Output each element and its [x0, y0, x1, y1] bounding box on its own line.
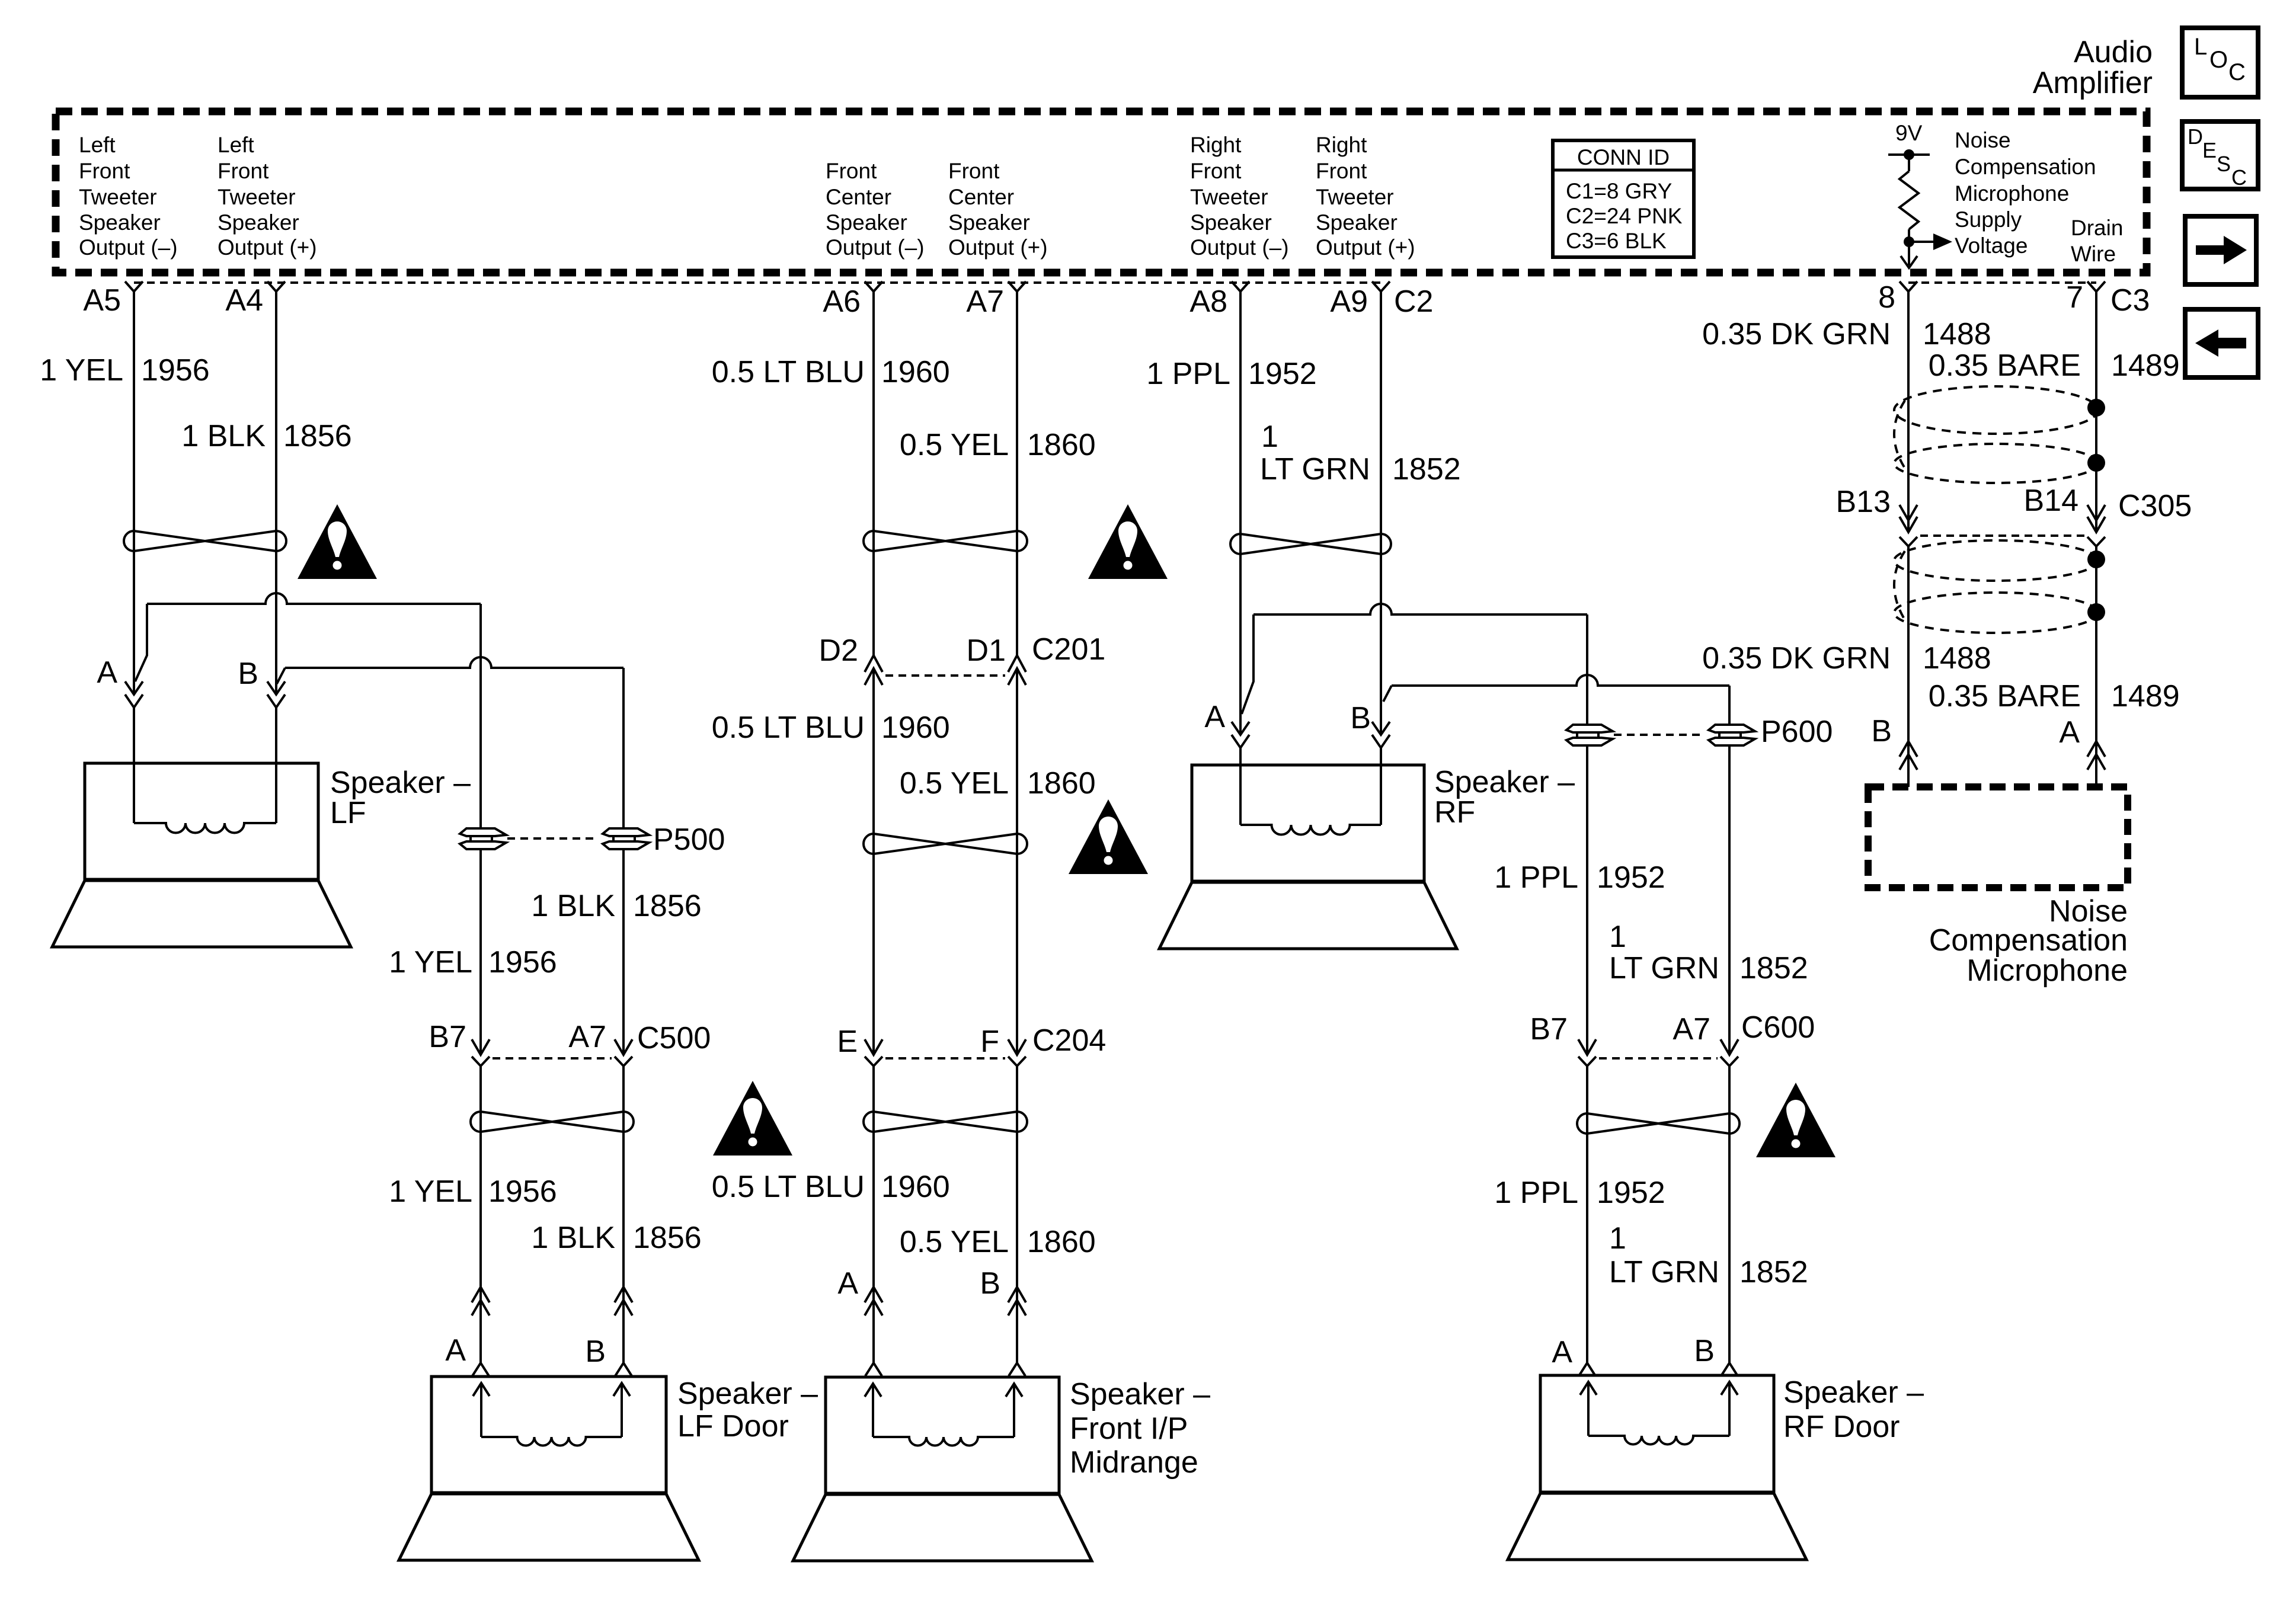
svg-text:1 BLK: 1 BLK: [531, 889, 615, 923]
svg-text:Speaker: Speaker: [948, 210, 1030, 235]
svg-text:0.5 YEL: 0.5 YEL: [900, 1225, 1009, 1259]
svg-text:Front: Front: [826, 159, 877, 183]
svg-text:Center: Center: [826, 185, 891, 209]
svg-text:Output (–): Output (–): [79, 235, 178, 260]
svg-text:1956: 1956: [141, 353, 210, 388]
svg-text:A8: A8: [1189, 284, 1227, 319]
svg-text:Output (+): Output (+): [1316, 235, 1415, 260]
svg-text:1 YEL: 1 YEL: [389, 1174, 472, 1209]
svg-text:Speaker –: Speaker –: [1434, 765, 1575, 799]
svg-text:0.35 DK GRN: 0.35 DK GRN: [1702, 317, 1891, 351]
svg-text:Tweeter: Tweeter: [1316, 185, 1394, 209]
svg-text:C1=8 GRY: C1=8 GRY: [1566, 179, 1672, 203]
svg-text:Front: Front: [218, 159, 269, 183]
svg-text:C204: C204: [1032, 1023, 1106, 1058]
svg-text:1952: 1952: [1597, 860, 1665, 895]
svg-text:Audio: Audio: [2074, 35, 2153, 69]
svg-text:Speaker: Speaker: [826, 210, 907, 235]
svg-text:C305: C305: [2118, 489, 2192, 523]
svg-text:7: 7: [2066, 280, 2083, 315]
svg-text:S: S: [2217, 152, 2231, 176]
svg-text:B7: B7: [1530, 1012, 1568, 1046]
svg-text:1 BLK: 1 BLK: [181, 419, 266, 453]
svg-text:Compensation: Compensation: [1955, 155, 2096, 179]
svg-text:C2=24 PNK: C2=24 PNK: [1566, 204, 1683, 228]
svg-text:B: B: [585, 1334, 606, 1369]
svg-text:0.35 BARE: 0.35 BARE: [1929, 348, 2081, 383]
svg-text:RF Door: RF Door: [1783, 1410, 1900, 1444]
svg-text:Tweeter: Tweeter: [218, 185, 296, 209]
svg-text:0.5 LT BLU: 0.5 LT BLU: [712, 710, 865, 745]
svg-text:Front: Front: [1190, 159, 1242, 183]
svg-text:Output (+): Output (+): [218, 235, 317, 260]
svg-text:Front I/P: Front I/P: [1070, 1411, 1188, 1446]
svg-text:LT GRN: LT GRN: [1609, 1255, 1719, 1289]
svg-text:1: 1: [1609, 920, 1626, 954]
svg-text:Speaker: Speaker: [1316, 210, 1398, 235]
svg-text:B: B: [1350, 701, 1371, 735]
svg-text:CONN ID: CONN ID: [1577, 145, 1670, 169]
svg-text:C600: C600: [1741, 1010, 1815, 1045]
svg-text:1 BLK: 1 BLK: [531, 1221, 615, 1255]
svg-text:B7: B7: [428, 1020, 466, 1054]
svg-text:LT GRN: LT GRN: [1609, 951, 1719, 985]
svg-text:E: E: [837, 1025, 858, 1059]
svg-text:A7: A7: [966, 284, 1004, 319]
svg-text:Noise: Noise: [1955, 128, 2011, 152]
svg-text:LT GRN: LT GRN: [1260, 452, 1370, 486]
svg-text:P500: P500: [653, 822, 725, 857]
svg-text:C3=6 BLK: C3=6 BLK: [1566, 229, 1667, 253]
svg-text:1856: 1856: [283, 419, 352, 453]
svg-text:LF Door: LF Door: [677, 1409, 789, 1443]
svg-text:Tweeter: Tweeter: [79, 185, 157, 209]
svg-text:Right: Right: [1190, 133, 1242, 157]
svg-text:Right: Right: [1316, 133, 1367, 157]
svg-text:Tweeter: Tweeter: [1190, 185, 1268, 209]
svg-text:Microphone: Microphone: [1966, 953, 2128, 988]
svg-text:1956: 1956: [488, 945, 557, 980]
svg-text:A6: A6: [823, 284, 861, 319]
svg-text:A9: A9: [1330, 284, 1368, 319]
svg-text:C201: C201: [1032, 632, 1105, 667]
svg-text:1960: 1960: [881, 355, 950, 389]
svg-text:1 PPL: 1 PPL: [1146, 357, 1230, 391]
svg-text:1856: 1856: [633, 889, 702, 923]
svg-text:Center: Center: [948, 185, 1014, 209]
svg-text:LF: LF: [330, 796, 366, 830]
svg-text:A: A: [1204, 700, 1225, 734]
svg-text:Voltage: Voltage: [1955, 233, 2028, 258]
svg-text:E: E: [2202, 138, 2217, 162]
svg-text:Speaker –: Speaker –: [1783, 1375, 1924, 1410]
svg-text:A: A: [97, 655, 117, 690]
svg-text:1852: 1852: [1739, 1255, 1808, 1289]
svg-text:1 PPL: 1 PPL: [1494, 1176, 1578, 1210]
svg-text:Wire: Wire: [2071, 242, 2116, 266]
svg-text:Front: Front: [79, 159, 130, 183]
svg-text:A: A: [837, 1266, 858, 1301]
svg-text:A: A: [2059, 715, 2080, 750]
svg-text:B: B: [238, 657, 258, 691]
svg-text:1852: 1852: [1392, 452, 1461, 486]
svg-text:1852: 1852: [1739, 951, 1808, 985]
svg-text:1 YEL: 1 YEL: [40, 353, 123, 388]
svg-text:D1: D1: [967, 633, 1006, 668]
svg-text:Left: Left: [218, 133, 254, 157]
svg-text:P600: P600: [1761, 715, 1833, 749]
svg-text:1489: 1489: [2111, 679, 2180, 713]
svg-text:1488: 1488: [1923, 641, 1991, 676]
svg-text:B14: B14: [2023, 484, 2078, 518]
svg-text:1856: 1856: [633, 1221, 702, 1255]
svg-text:RF: RF: [1434, 795, 1475, 830]
svg-text:O: O: [2209, 47, 2228, 73]
svg-text:C3: C3: [2110, 283, 2150, 318]
svg-text:Output (+): Output (+): [948, 235, 1048, 260]
svg-text:1952: 1952: [1597, 1176, 1665, 1210]
svg-text:Front: Front: [1316, 159, 1367, 183]
svg-text:0.5 LT BLU: 0.5 LT BLU: [712, 1170, 865, 1204]
svg-text:0.5 YEL: 0.5 YEL: [900, 428, 1009, 462]
svg-text:B13: B13: [1835, 485, 1891, 519]
svg-text:Supply: Supply: [1955, 207, 2022, 232]
svg-text:D: D: [2188, 124, 2203, 149]
svg-text:8: 8: [1878, 280, 1895, 315]
svg-text:0.5 YEL: 0.5 YEL: [900, 766, 1009, 801]
svg-text:1952: 1952: [1248, 357, 1317, 391]
svg-text:L: L: [2194, 34, 2207, 60]
svg-text:Midrange: Midrange: [1070, 1445, 1198, 1480]
svg-text:1960: 1960: [881, 1170, 950, 1204]
svg-text:A7: A7: [1673, 1012, 1710, 1046]
svg-text:A: A: [1552, 1335, 1572, 1369]
svg-text:9V: 9V: [1895, 121, 1923, 145]
svg-text:1860: 1860: [1027, 766, 1096, 801]
svg-text:A: A: [445, 1333, 466, 1368]
svg-text:A5: A5: [83, 283, 121, 318]
svg-text:Microphone: Microphone: [1955, 181, 2069, 206]
svg-text:Drain: Drain: [2071, 216, 2123, 240]
svg-text:1860: 1860: [1027, 1225, 1096, 1259]
svg-text:Amplifier: Amplifier: [2033, 66, 2153, 100]
svg-text:Compensation: Compensation: [1929, 923, 2128, 958]
svg-text:D2: D2: [819, 633, 858, 668]
svg-text:B: B: [980, 1266, 1000, 1301]
svg-text:C500: C500: [637, 1021, 711, 1055]
svg-text:C2: C2: [1394, 284, 1433, 319]
svg-text:Output (–): Output (–): [826, 235, 925, 260]
svg-text:Speaker: Speaker: [1190, 210, 1272, 235]
svg-text:B: B: [1694, 1334, 1715, 1368]
svg-text:1: 1: [1261, 420, 1278, 454]
svg-text:Speaker –: Speaker –: [1070, 1377, 1210, 1411]
svg-text:1960: 1960: [881, 710, 950, 745]
svg-text:C: C: [2231, 165, 2247, 190]
svg-text:1 YEL: 1 YEL: [389, 945, 472, 980]
svg-text:A7: A7: [568, 1020, 606, 1054]
svg-text:0.35 BARE: 0.35 BARE: [1929, 679, 2081, 713]
svg-text:1: 1: [1609, 1221, 1626, 1256]
svg-text:Output (–): Output (–): [1190, 235, 1289, 260]
svg-text:Speaker: Speaker: [79, 210, 161, 235]
svg-text:C: C: [2228, 59, 2246, 85]
svg-text:Speaker –: Speaker –: [330, 766, 471, 800]
svg-text:1 PPL: 1 PPL: [1494, 860, 1578, 895]
svg-text:Speaker: Speaker: [218, 210, 299, 235]
svg-text:1956: 1956: [488, 1174, 557, 1209]
svg-text:1489: 1489: [2111, 348, 2180, 383]
svg-text:1488: 1488: [1923, 317, 1991, 351]
svg-text:Front: Front: [948, 159, 1000, 183]
svg-text:Left: Left: [79, 133, 116, 157]
svg-text:A4: A4: [225, 283, 263, 318]
svg-text:Speaker –: Speaker –: [677, 1377, 818, 1411]
svg-text:F: F: [980, 1025, 999, 1059]
svg-text:0.35 DK GRN: 0.35 DK GRN: [1702, 641, 1891, 676]
svg-text:B: B: [1871, 714, 1892, 748]
svg-text:1860: 1860: [1027, 428, 1096, 462]
svg-text:0.5 LT BLU: 0.5 LT BLU: [712, 355, 865, 389]
